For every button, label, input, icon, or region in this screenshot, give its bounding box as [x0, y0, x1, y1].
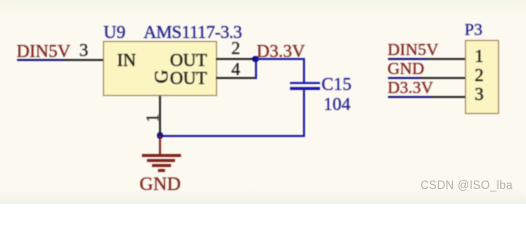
wire: GND to P3 pin2 [421, 77, 465, 79]
wire: vertical pin4 up to junction [255, 59, 257, 79]
label U9 [104, 23, 126, 41]
wire: vertical down to capacitor [303, 59, 305, 82]
ground: bar 4 [158, 169, 166, 172]
ground: bar 2 [147, 159, 175, 162]
wire: DIN5V to IN pin [65, 59, 103, 61]
wire: DIN5V navy segment (P3) [388, 58, 428, 60]
wire: regulator GND pin down [159, 96, 161, 135]
node junction at ground [157, 132, 164, 139]
net label GND (P3) [388, 60, 425, 77]
wire: bottom return to ground junction [160, 135, 305, 137]
wire: DIN5V to P3 pin1 [427, 58, 465, 60]
pin number 4 [231, 60, 240, 78]
wire: D3.3V to P3 pin3 [432, 96, 465, 98]
net label DIN5V (left) [17, 42, 71, 60]
wire: OUT pin 4 horizontal [216, 77, 255, 79]
regulator U9 body [103, 41, 217, 96]
ground: bar 1 [142, 154, 181, 157]
value 104 [324, 95, 351, 113]
pin name OUT (pin 4) [170, 69, 207, 87]
capacitor C15 top plate [290, 82, 320, 85]
wire: D3.3V navy segment (P3) [388, 96, 433, 98]
pin number 2 [231, 39, 240, 57]
value label AMS1117-3.3 [144, 23, 242, 41]
pin name G (rotated) [152, 70, 171, 84]
pin number 3 [79, 41, 88, 59]
ground label GND [140, 175, 181, 194]
wire: capacitor bottom down [303, 90, 305, 136]
ground: bar 3 [152, 164, 171, 167]
watermark [421, 181, 513, 193]
wire: DIN5V navy underline segment [17, 59, 66, 61]
pin number 2 (P3) [475, 66, 484, 84]
wire: junction to capacitor top (horizontal blue) [255, 58, 305, 60]
ground: stem [159, 135, 161, 155]
wire: GND navy segment (P3) [388, 77, 421, 79]
pin name OUT (pin 2) [170, 51, 207, 69]
capacitor C15 bottom plate [290, 87, 320, 90]
net label DIN5V (P3) [388, 41, 439, 58]
pin number 3 (P3) [475, 85, 484, 103]
label P3 [465, 21, 483, 38]
connector P3 body [465, 40, 500, 114]
label C15 [322, 75, 352, 93]
pin name IN [117, 51, 136, 69]
net label D3.3V [257, 42, 306, 60]
pin number 1 (P3) [475, 47, 484, 65]
pin number 1 (rotated) [143, 113, 161, 122]
wire: OUT pin 2 to junction [216, 58, 255, 60]
node junction at D3.3V [252, 56, 259, 63]
net label D3.3V (P3) [388, 79, 434, 96]
